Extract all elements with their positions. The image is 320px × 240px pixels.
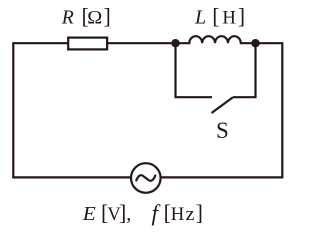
wire: left loop (top-left corner down to AC source left terminal) xyxy=(13,43,131,177)
wire: resistor to node A xyxy=(107,42,176,44)
wire: switch branch right (blade pivot up to node B) xyxy=(233,43,256,97)
AC source sine symbol xyxy=(136,175,155,181)
node A (left junction dot) xyxy=(171,39,179,47)
wire: right loop (AC source right terminal to bottom-right corner up to node B lead) xyxy=(161,43,283,177)
resistor R xyxy=(68,38,107,50)
AC source circle xyxy=(131,163,161,193)
node B (right junction dot) xyxy=(251,39,259,47)
svg-text:L[H]: L[H] xyxy=(194,3,245,28)
switch S blade (open) xyxy=(212,97,234,113)
wire: switch branch left (down from node A, right to fixed contact) xyxy=(176,43,213,97)
svg-text:S: S xyxy=(216,118,229,143)
inductor L xyxy=(176,36,256,43)
svg-text:R[Ω]: R[Ω] xyxy=(61,3,111,28)
svg-text:E[V],f[Hz]: E[V],f[Hz] xyxy=(82,200,203,225)
